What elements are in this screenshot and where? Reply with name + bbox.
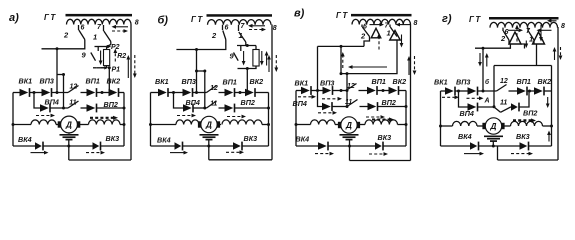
- contact 11 terminal: [219, 107, 225, 109]
- node P1: [108, 66, 111, 69]
- node resistor top: [246, 44, 249, 47]
- svg-text:ВК3: ВК3: [244, 134, 258, 143]
- coil arrow left: [396, 23, 411, 27]
- resistor top lead: [106, 47, 108, 50]
- motor bottom lead: [68, 133, 70, 134]
- motor to bottom rail: [492, 142, 494, 147]
- current arrow ВП4 row: [177, 114, 196, 118]
- svg-text:ВК3: ВК3: [516, 132, 530, 141]
- node left rail motor row: [439, 125, 442, 128]
- diode ВК4: [470, 142, 479, 151]
- svg-text:12: 12: [210, 85, 218, 92]
- transformer ГТ winding: [490, 22, 558, 27]
- wire ВК1-ВП3: [30, 92, 42, 94]
- svg-text:ВК4: ВК4: [18, 135, 32, 144]
- contact 12 terminal: [509, 90, 518, 92]
- coil arrow right: [508, 28, 523, 32]
- node inner rail ВП2: [267, 107, 270, 110]
- wire W1: [318, 45, 365, 47]
- resistor top wire: [237, 45, 256, 47]
- bridge row left wire: [151, 92, 159, 94]
- svg-text:ВП4: ВП4: [293, 99, 307, 108]
- node riser2 ВП4: [203, 107, 206, 110]
- wire W2: [494, 65, 552, 67]
- current arrow down dashed: [413, 56, 417, 75]
- svg-text:ВК1: ВК1: [19, 77, 33, 86]
- current arrow ВП2 row: [227, 115, 246, 119]
- wire N1 to ВП4: [459, 91, 468, 107]
- wire ВК2 to inner rail: [399, 90, 407, 92]
- wire W2: [341, 40, 397, 74]
- brush arrow right dashed: [112, 29, 128, 33]
- node motor bottom: [348, 145, 351, 148]
- coil arrow left: [537, 28, 552, 32]
- motor brush symbol: [200, 135, 219, 140]
- wire ВП2 to inner rail: [97, 107, 125, 109]
- diode ВК1: [20, 88, 30, 97]
- motor row left wire: [296, 124, 311, 126]
- svg-text:ВП4: ВП4: [186, 98, 200, 107]
- svg-text:1: 1: [93, 33, 97, 42]
- inner right rail: [268, 93, 270, 147]
- wire ВП4 to contact 11: [193, 107, 207, 109]
- wire motor to right coil: [357, 124, 365, 126]
- svg-text:ВП2: ВП2: [523, 109, 537, 118]
- inner right rail: [405, 91, 407, 147]
- field coil left: [31, 120, 56, 125]
- tap 6 lead: [502, 28, 504, 31]
- adjust arrow R2 dashed: [113, 49, 117, 62]
- left rail: [150, 93, 152, 147]
- wire ВП4 to contact 11: [332, 106, 347, 108]
- node inner rail motor row: [267, 123, 270, 126]
- contact 1 elbow: [533, 40, 535, 44]
- diode ВП4: [40, 104, 50, 113]
- wire ВП1-ВК2: [377, 90, 389, 92]
- wire ВП4 to contact 11: [50, 107, 68, 109]
- contact 12 blade: [207, 86, 217, 93]
- svg-text:ВК1: ВК1: [295, 79, 309, 88]
- wire ВК2 to inner rail: [119, 92, 125, 94]
- ВК4 row wire: [441, 145, 471, 147]
- wire H1: [475, 44, 510, 48]
- node ВП1-ВК2: [239, 91, 242, 94]
- branch 9 upper wire: [240, 46, 242, 52]
- tap 6 lead: [222, 25, 224, 30]
- wire thyristor2 drop: [536, 44, 538, 66]
- wire ВК4 to ВК3: [43, 145, 93, 147]
- right arrow up solid: [553, 47, 557, 60]
- diode ВП3: [42, 88, 52, 97]
- tap 7 lead: [103, 25, 105, 31]
- brush arrow left: [248, 24, 265, 28]
- diode ВК2: [109, 88, 119, 97]
- outer right rail: [271, 25, 273, 160]
- wire ВК3 to inner rail: [242, 145, 269, 147]
- bridge row left wire: [296, 90, 301, 92]
- current arrow ВК3: [86, 151, 105, 155]
- outer right rail: [410, 25, 412, 161]
- svg-text:Д: Д: [205, 121, 212, 130]
- contact 2 blade: [223, 31, 226, 40]
- diode ВП4: [322, 102, 332, 111]
- node inner rail ВП2: [405, 105, 408, 108]
- svg-text:ВП4: ВП4: [45, 98, 59, 107]
- contact 11 terminal: [360, 106, 368, 108]
- svg-text:ВП3: ВП3: [182, 77, 196, 86]
- wire ВК2 to inner rail: [544, 90, 552, 92]
- node left rail motor row: [295, 123, 298, 126]
- wire B: [197, 70, 205, 72]
- svg-text:7: 7: [97, 24, 102, 31]
- motor to bottom rail: [208, 140, 210, 160]
- motor to bottom rail: [349, 140, 351, 161]
- current arrow ВК3: [226, 150, 244, 154]
- riser1: [56, 49, 58, 93]
- svg-text:Д: Д: [490, 122, 497, 131]
- wire ВП1-ВК2: [97, 92, 109, 94]
- node riser b bridge: [346, 89, 349, 92]
- svg-text:Д: Д: [345, 121, 352, 130]
- motor row left wire: [151, 124, 177, 126]
- current arrow down dashed: [274, 55, 278, 72]
- node riser2 ВП4: [62, 107, 65, 110]
- motor brush symbol: [484, 136, 503, 141]
- current arrow ВК3: [369, 152, 388, 156]
- wire ВК1-ВП3: [311, 90, 323, 92]
- thyristor 2: [390, 31, 401, 41]
- adjust arrow down: [260, 51, 264, 66]
- svg-text:8: 8: [561, 23, 565, 30]
- field coil left: [311, 120, 336, 125]
- svg-text:ГТ: ГТ: [44, 13, 57, 22]
- contact 12 blade: [346, 84, 357, 91]
- ВК4 row wire: [13, 145, 35, 147]
- ВК4 row wire: [296, 145, 318, 147]
- svg-text:12: 12: [70, 84, 78, 91]
- node N1: [172, 91, 175, 94]
- riser1: [196, 50, 198, 93]
- node motor bottom: [492, 145, 495, 148]
- loop arrow up: [547, 131, 551, 142]
- current arrow ВП2 row: [366, 115, 385, 119]
- node ВП1-ВК2: [382, 89, 385, 92]
- current arrow down solid: [546, 97, 550, 108]
- svg-text:12: 12: [347, 83, 355, 90]
- wire ВП4 to node A: [478, 106, 495, 108]
- node W2 left: [340, 72, 343, 75]
- riser a to row: [493, 66, 495, 107]
- diode ВК4: [175, 142, 183, 151]
- wire coil to motor: [56, 124, 61, 126]
- contact 11 terminal: [81, 107, 87, 109]
- node А: [493, 105, 496, 108]
- wire contact2 to left rail: [176, 40, 225, 50]
- riser a: [340, 46, 342, 73]
- wire ВП3 to contact 12: [333, 90, 347, 92]
- field coil left: [176, 120, 199, 125]
- svg-text:ВК3: ВК3: [106, 134, 120, 143]
- motor to bottom rail: [68, 140, 70, 160]
- left rail: [12, 93, 14, 147]
- riser left: [317, 46, 319, 90]
- thyristor 2: [533, 32, 545, 44]
- wire ВК3 to inner rail: [101, 145, 125, 147]
- current arrow ВК4: [31, 151, 49, 155]
- wire ВП2 to inner rail: [378, 106, 407, 108]
- svg-text:7: 7: [241, 23, 246, 30]
- svg-text:Р1: Р1: [112, 67, 121, 74]
- svg-text:Д: Д: [65, 121, 72, 130]
- wire ВП3 to contact 12: [193, 92, 207, 94]
- diode ВК2: [245, 88, 255, 97]
- diode ВК3: [375, 142, 383, 151]
- riser b: [346, 74, 348, 107]
- transformer ГТ core: [489, 17, 559, 20]
- tap 7 lead: [389, 25, 391, 28]
- wire N1 to ВП4: [174, 93, 184, 109]
- field coil right: [365, 120, 398, 125]
- svg-text:ВК4: ВК4: [458, 132, 472, 141]
- motor Д: [198, 116, 220, 132]
- node ВП1-ВК2: [101, 91, 104, 94]
- svg-text:6: 6: [81, 25, 85, 32]
- transformer ГТ winding: [208, 20, 272, 25]
- riser1 bridge junction: [195, 91, 198, 94]
- svg-text:ВП1: ВП1: [86, 77, 100, 86]
- node N1: [33, 91, 36, 94]
- wire B: [57, 74, 64, 76]
- node wire B: [62, 73, 65, 76]
- ВК4 row wire: [151, 145, 175, 147]
- svg-text:ГТ: ГТ: [191, 15, 204, 24]
- node P2 wire: [95, 46, 111, 48]
- svg-text:А: А: [484, 98, 490, 105]
- svg-text:ВК2: ВК2: [250, 77, 264, 86]
- svg-text:8: 8: [135, 20, 139, 27]
- svg-text:ВП4: ВП4: [460, 109, 474, 118]
- svg-text:8: 8: [273, 25, 277, 32]
- svg-text:ГТ: ГТ: [336, 11, 349, 20]
- node H1 riser: [482, 47, 485, 50]
- bridge row left wire: [13, 92, 20, 94]
- contact 1 blade: [104, 31, 111, 42]
- riser b to bridge: [482, 48, 484, 91]
- wire contact2 to left rail: [42, 40, 85, 49]
- motor brush symbol: [60, 135, 79, 140]
- svg-text:ВК2: ВК2: [107, 77, 121, 86]
- riser1 bridge junction: [56, 91, 59, 94]
- diode ВК3: [520, 142, 529, 151]
- svg-text:ГТ: ГТ: [469, 15, 482, 24]
- diode ВП1: [367, 86, 377, 95]
- left rail: [295, 91, 297, 147]
- transformer ГТ core: [351, 14, 412, 17]
- node inner rail ВП2: [123, 107, 126, 110]
- diode ВК4: [318, 142, 328, 151]
- diode ВК3: [93, 142, 101, 151]
- contact 2 elbow: [364, 37, 370, 47]
- riser2: [63, 75, 65, 109]
- wire right coil to rail: [543, 125, 552, 127]
- current arrow ВК4: [315, 152, 334, 156]
- node N1: [316, 89, 319, 92]
- coil arrow right top: [372, 117, 394, 121]
- field coil right: [511, 121, 543, 126]
- svg-text:г): г): [442, 13, 452, 25]
- thyristor 2 arrow solid down: [400, 35, 404, 48]
- node Б: [482, 90, 485, 93]
- svg-text:1: 1: [387, 29, 391, 38]
- control arrow dashed up: [341, 52, 345, 68]
- diode ВП1: [225, 88, 235, 97]
- svg-text:ВП3: ВП3: [40, 77, 54, 86]
- current arrow up solid: [267, 55, 271, 72]
- wire ВК4 to ВК3: [183, 145, 237, 147]
- current arrow ВК1: [442, 95, 459, 99]
- wire ВК1-ВП3: [168, 92, 183, 94]
- svg-text:ВК4: ВК4: [296, 135, 310, 144]
- contact 11 blade: [347, 100, 358, 107]
- branch 9 upper wire: [97, 47, 99, 52]
- resistor bottom wire: [238, 68, 248, 70]
- wire right coil to rail: [120, 124, 124, 126]
- motor Д: [482, 118, 504, 134]
- thyristor 1: [509, 32, 521, 44]
- wire ВК3 to inner rail: [383, 145, 406, 147]
- wire ВК3 to inner rail: [529, 145, 552, 147]
- bottom loop: [69, 159, 131, 161]
- current arrow ВП4 row: [318, 111, 337, 115]
- diode ВК1: [445, 87, 455, 96]
- contact 12 terminal: [219, 92, 225, 94]
- outer right rail: [557, 27, 559, 160]
- diode ВК2: [534, 87, 544, 96]
- tap 7 lead: [238, 25, 240, 31]
- tap 7 lead: [527, 28, 529, 31]
- current arrow ВК4: [464, 152, 484, 156]
- left arrow down solid: [478, 53, 482, 67]
- contact 12 terminal: [81, 92, 87, 94]
- svg-text:б): б): [158, 15, 169, 27]
- current arrow down dashed: [133, 55, 137, 78]
- motor row left wire: [13, 124, 31, 126]
- tap 6 lead: [361, 25, 363, 28]
- node inner rail motor row: [405, 123, 408, 126]
- wire ВП2 to inner rail: [235, 107, 269, 109]
- svg-text:1: 1: [239, 31, 243, 40]
- commutation arrow left: [348, 65, 387, 69]
- contact 11 blade: [501, 107, 512, 113]
- node N1: [457, 90, 460, 93]
- node motor bottom: [67, 145, 70, 148]
- svg-text:ВП2: ВП2: [382, 98, 396, 107]
- contact 12 terminal: [359, 90, 368, 92]
- transformer ГТ winding: [67, 19, 132, 24]
- left arrow up solid: [485, 53, 489, 67]
- diode ВП3: [468, 87, 478, 96]
- motor row left wire: [441, 125, 453, 127]
- wire contact1 to node: [246, 42, 248, 46]
- svg-text:ВП1: ВП1: [517, 77, 531, 86]
- svg-text:11: 11: [69, 99, 76, 106]
- node wire B left: [195, 70, 198, 73]
- node P1 left stub: [93, 67, 97, 69]
- svg-text:8: 8: [414, 20, 418, 27]
- node inner rail motor row: [123, 123, 126, 126]
- svg-text:R2: R2: [117, 53, 126, 60]
- field coil right: [222, 120, 262, 125]
- diode ВП2: [225, 104, 235, 113]
- outer right rail: [130, 25, 132, 161]
- current arrow ВП4 row: [36, 114, 55, 118]
- diode ВП4: [468, 103, 478, 112]
- svg-text:2: 2: [211, 31, 217, 40]
- contact 11 blade: [68, 101, 79, 108]
- current arrow ВП3: [322, 97, 342, 101]
- diode ВП2: [511, 103, 519, 112]
- wire N1 to ВП4: [34, 93, 40, 109]
- contact 11 blade: [207, 101, 217, 108]
- contact 1 blade: [390, 27, 397, 37]
- thyristor 1: [371, 28, 381, 38]
- svg-text:6: 6: [225, 25, 229, 32]
- thyristor 1 arrow dashed up: [377, 33, 381, 50]
- motor Д: [58, 116, 81, 133]
- field coil right: [89, 120, 121, 125]
- bridge row left wire: [441, 90, 446, 92]
- right arrow down dashed: [559, 47, 563, 60]
- brush arrow left: [112, 25, 129, 29]
- contact 2 blade g: [503, 31, 509, 40]
- diode ВП1: [87, 88, 97, 97]
- contact 9 blade: [234, 53, 239, 61]
- contact 12 blade: [68, 86, 79, 93]
- wire node to bridge: [246, 69, 248, 93]
- wire ВК1-ВП3: [455, 90, 468, 92]
- riser2: [204, 71, 206, 108]
- svg-text:ВП1: ВП1: [372, 77, 386, 86]
- diode ВП3: [323, 86, 333, 95]
- svg-text:ВК4: ВК4: [157, 136, 171, 145]
- contact 1 blade g: [528, 31, 534, 40]
- adjust arrow up: [265, 51, 269, 66]
- svg-text:ВП2: ВП2: [241, 98, 255, 107]
- bottom loop: [209, 159, 272, 161]
- diode ВП3: [183, 88, 193, 97]
- wire ВК4 to ВК3: [479, 145, 520, 147]
- transformer ГТ winding: [352, 19, 411, 24]
- resistor top lead: [255, 46, 257, 50]
- node ВП1-ВК2: [528, 90, 531, 93]
- loop drop: [497, 146, 499, 160]
- svg-text:ВК2: ВК2: [393, 77, 407, 86]
- node wire B: [203, 70, 206, 73]
- coil arrow left outer: [547, 19, 557, 23]
- motor Д: [338, 117, 360, 133]
- svg-text:а): а): [9, 12, 19, 24]
- diode ВК2: [389, 86, 399, 95]
- diode ВП2: [368, 102, 378, 111]
- wire ВП1-ВК2: [235, 92, 246, 94]
- diode ВП1: [517, 87, 527, 96]
- node motor bottom: [207, 145, 210, 148]
- bottom loop: [350, 160, 411, 162]
- diode ВП4: [183, 104, 193, 113]
- node riser a bridge: [340, 89, 343, 92]
- left rail: [440, 91, 442, 146]
- current arrow ВК4: [170, 151, 188, 155]
